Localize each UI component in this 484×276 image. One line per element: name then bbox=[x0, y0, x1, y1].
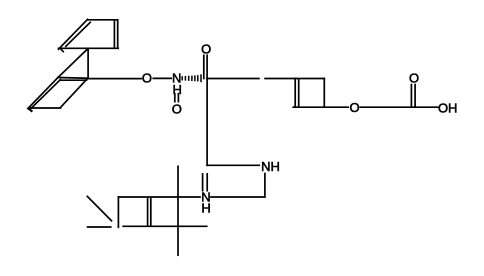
svg-text:H: H bbox=[201, 201, 210, 216]
svg-text:O: O bbox=[142, 71, 152, 86]
C=N double bond bbox=[203, 174, 208, 191]
ring C (cyclohexene drawn as square) bbox=[293, 79, 348, 108]
hashed wedge bond N to carbonyl C bbox=[182, 75, 201, 81]
wire: C=O line 2 bbox=[206, 55, 208, 78]
wire: bond carbonyl C toward ring C (left segment) bbox=[207, 78, 259, 80]
wire: diagonal bond ring A to ring B bbox=[58, 49, 88, 78]
svg-text:H: H bbox=[173, 82, 182, 97]
wire: ring B bottom edge bbox=[29, 107, 61, 109]
wire: C=O line 1 bbox=[203, 55, 205, 78]
wire: ring B corner tick bbox=[29, 109, 32, 111]
svg-text:NH: NH bbox=[261, 159, 280, 174]
wire: bond chain C to NH bbox=[207, 164, 259, 166]
wire: ring A right edge bbox=[117, 20, 119, 49]
wire: bond ring B to ester O bbox=[88, 78, 141, 80]
wire: ring C top edge bbox=[295, 78, 324, 80]
wire: bond NH down bbox=[264, 174, 266, 197]
wire: cluster diagonal methyl bbox=[87, 196, 111, 220]
wire: ring A corner tick bbox=[61, 49, 64, 52]
svg-text:OH: OH bbox=[438, 101, 458, 116]
ring A (top aryl ring) bbox=[59, 19, 119, 51]
wire: ring B right slanted edge bbox=[61, 78, 88, 107]
wire: ring B top edge bbox=[58, 77, 88, 80]
wire: N=O line 1 bbox=[174, 94, 176, 102]
wire: ring C left edge bbox=[294, 79, 296, 108]
wire: bond to ring C (right segment) bbox=[265, 78, 295, 80]
wire: bond N to tert-butyl cluster (cluster top edge) bbox=[118, 196, 200, 198]
ring B (lower-left aryl ring) bbox=[28, 78, 88, 112]
wire: cluster inner double-bond line 1 bbox=[147, 197, 149, 226]
nitro N=O double bond bbox=[175, 94, 179, 102]
wire: ring C bottom edge continuing to ester O bbox=[293, 106, 348, 108]
tert-butyl cluster bbox=[87, 166, 206, 255]
wire: ring C right edge bbox=[323, 79, 325, 108]
wire: ring B left slanted edge bbox=[28, 78, 58, 109]
wire: ring A right edge inner double-bond line bbox=[113, 21, 115, 47]
wire: C=O line 2 bbox=[414, 85, 416, 108]
wire: ring A left edge inner double-bond line bbox=[66, 22, 91, 46]
wire: bond O to N bbox=[153, 77, 171, 79]
wire: bond O to carbonate C and on to OH bbox=[360, 106, 437, 108]
wire: ring B top edge inner double-bond line bbox=[60, 79, 86, 81]
wire: ring A left slanted edge bbox=[59, 19, 88, 49]
wire: ring B left edge inner double-bond line bbox=[31, 80, 60, 108]
wire: ring C left edge inner double-bond line bbox=[298, 79, 300, 107]
wire: C=N line 2 bbox=[206, 174, 208, 191]
carbonyl C=O double bond (upper) bbox=[204, 55, 207, 78]
wire: ring A top edge bbox=[88, 19, 118, 21]
wire: cluster short horizontal methyl bbox=[88, 226, 111, 228]
wire: ring A bottom edge bbox=[59, 47, 119, 49]
wire: N=O line 2 bbox=[177, 94, 179, 102]
wire: C=N line 1 bbox=[202, 174, 204, 191]
wire: bond CH2 to lower N bbox=[211, 196, 265, 198]
wire: cluster long vertical (axial methyls) bbox=[177, 166, 179, 255]
svg-text:O: O bbox=[201, 42, 211, 57]
wire: cluster inner double-bond line 2 bbox=[150, 197, 152, 226]
carbonate C=O double bond bbox=[411, 85, 415, 108]
wire: vertical bond ring A to ring B bbox=[87, 48, 89, 78]
wire: chain vertical bond from carbonyl C down bbox=[206, 79, 208, 166]
wire: cluster bottom horizontal bbox=[123, 225, 207, 227]
svg-text:O: O bbox=[172, 101, 182, 116]
svg-text:O: O bbox=[409, 70, 419, 85]
svg-text:O: O bbox=[349, 100, 359, 115]
wire: cluster left vertical edge bbox=[117, 197, 119, 227]
wire: C=O line 1 bbox=[410, 85, 412, 108]
